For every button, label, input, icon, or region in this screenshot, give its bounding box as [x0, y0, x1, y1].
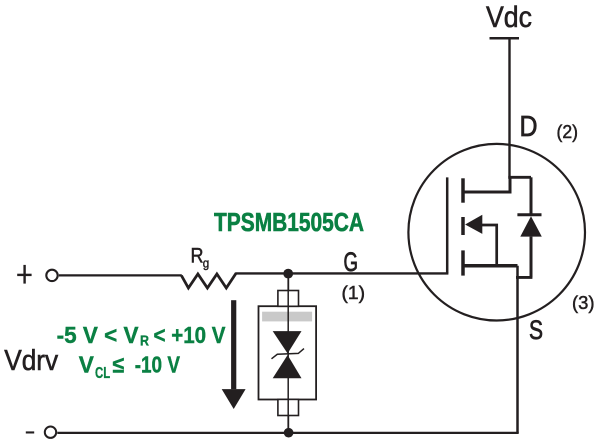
svg-text:(1): (1): [342, 283, 366, 303]
svg-text:R: R: [191, 245, 204, 268]
terminal - (negative input): [26, 431, 34, 433]
Vdc supply bar: [490, 37, 520, 40]
MOSFET Q1 body circle: [408, 144, 585, 321]
TVS cathode band: [262, 312, 312, 322]
wire + terminal to resistor: [59, 274, 182, 276]
body diode D1 triangle: [520, 216, 542, 236]
current direction arrow: [231, 300, 236, 389]
svg-text:R: R: [140, 333, 149, 350]
TVS bottom pin: [278, 399, 299, 415]
body diode D1 top lead: [530, 177, 533, 214]
MOSFET substrate arrow: [465, 215, 482, 234]
svg-text:(3): (3): [572, 293, 595, 313]
body diode D1 bottom lead: [530, 237, 533, 278]
resistor Rg: [181, 273, 236, 288]
MOSFET channel bar bottom: [461, 250, 465, 275]
wire source down to bottom rail: [516, 266, 519, 433]
terminal + (positive input): [17, 265, 31, 284]
wire drain jog to body diode: [508, 176, 531, 179]
svg-text:Vdc: Vdc: [486, 1, 532, 34]
svg-text:CL: CL: [95, 365, 110, 382]
TVS center lead: [287, 291, 289, 416]
node junction bottom: [284, 428, 294, 438]
svg-text:TPSMB1505CA: TPSMB1505CA: [214, 207, 364, 237]
svg-text:V: V: [79, 352, 95, 378]
MOSFET channel bar top: [461, 178, 465, 202]
TVS body rectangle: [259, 306, 317, 399]
wire body diode to source jog: [516, 276, 532, 279]
svg-text:S: S: [529, 315, 543, 345]
svg-text:< +10 V: < +10 V: [154, 322, 227, 348]
wire Vdc to drain: [508, 38, 510, 179]
MOSFET drain connection: [463, 177, 510, 192]
TVS zener line: [272, 349, 305, 359]
TVS diode top triangle: [273, 331, 302, 353]
svg-text:-5 V < V: -5 V < V: [57, 322, 140, 348]
svg-text:G: G: [344, 247, 359, 277]
svg-text:-10 V: -10 V: [135, 352, 181, 378]
MOSFET channel bar middle: [461, 217, 465, 235]
body diode D1 cathode bar: [517, 213, 541, 216]
MOSFET gate electrode line: [446, 177, 449, 273]
svg-text:Vdrv: Vdrv: [4, 345, 58, 377]
MOSFET source connection: [463, 264, 518, 268]
TVS top pin: [278, 291, 299, 307]
terminal circle +: [46, 270, 57, 281]
svg-text:g: g: [203, 256, 210, 270]
TVS diode bottom triangle: [273, 355, 302, 378]
node junction top (TVS tap): [283, 269, 293, 279]
svg-text:D: D: [520, 111, 538, 143]
wire resistor to gate: [236, 272, 449, 274]
bottom rail wire: [57, 432, 518, 434]
wire TVS to bottom junction: [287, 416, 289, 433]
svg-text:≤: ≤: [113, 352, 125, 378]
wire junction to TVS top pin: [287, 274, 289, 292]
svg-text:(2): (2): [557, 122, 579, 142]
terminal circle -: [45, 427, 56, 438]
